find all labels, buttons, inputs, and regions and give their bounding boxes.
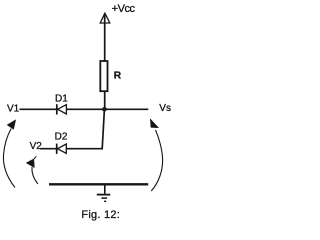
svg-text:D2: D2 bbox=[55, 131, 68, 142]
svg-text:V2: V2 bbox=[30, 141, 43, 152]
svg-text:Vs: Vs bbox=[159, 103, 171, 114]
ground symbol bbox=[97, 185, 111, 201]
svg-text:R: R bbox=[114, 71, 122, 82]
wire from output node down to D2 bbox=[102, 110, 104, 149]
annotation curved arrow left (current into V1) bbox=[3, 120, 15, 188]
svg-text:D1: D1 bbox=[55, 94, 68, 105]
wire V1 to Vs horizontal bbox=[20, 108, 149, 110]
resistor R bbox=[100, 61, 107, 91]
wire from supply arrow to resistor R bbox=[104, 14, 106, 61]
svg-text:Fig. 12:: Fig. 12: bbox=[81, 209, 120, 221]
junction dot output node bbox=[102, 107, 107, 112]
annotation curved arrow right (current out of Vs) bbox=[150, 119, 162, 191]
svg-text:V1: V1 bbox=[7, 104, 20, 115]
wire from resistor to output node bbox=[104, 92, 106, 110]
wire V2 to D2 and to node drop bbox=[40, 148, 103, 150]
svg-text:+Vcc: +Vcc bbox=[112, 3, 136, 15]
diode D1 bbox=[57, 104, 67, 114]
ground rail wire bbox=[49, 183, 148, 185]
annotation curved arrow small (current into V2) bbox=[26, 156, 38, 184]
power supply arrow symbol bbox=[100, 13, 110, 23]
diode D2 bbox=[57, 144, 67, 154]
